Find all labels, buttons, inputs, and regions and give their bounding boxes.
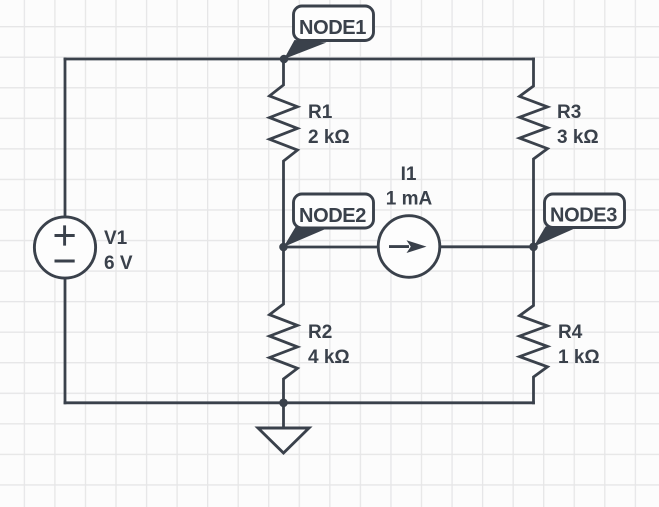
svg-text:2 kΩ: 2 kΩ <box>308 127 350 148</box>
junction at NODE1 <box>280 55 289 64</box>
current source I1 <box>378 216 440 278</box>
resistor R4 <box>520 247 548 403</box>
node NODE1 label <box>284 6 374 59</box>
svg-text:R4: R4 <box>558 322 583 343</box>
svg-text:6 V: 6 V <box>104 253 133 274</box>
svg-text:1 kΩ: 1 kΩ <box>558 347 600 368</box>
svg-text:4 kΩ: 4 kΩ <box>308 347 350 368</box>
svg-text:R3: R3 <box>557 102 581 123</box>
svg-text:NODE1: NODE1 <box>299 17 366 39</box>
wire NODE2 to I1 <box>284 246 379 249</box>
wire left upper: V1 top lead <box>64 59 67 217</box>
wire bottom: ground rail <box>65 401 534 404</box>
resistor R3 <box>520 59 548 247</box>
junction at ground rail <box>279 399 288 408</box>
value label R3 / 3 kΩ <box>557 102 599 148</box>
svg-text:R1: R1 <box>308 102 333 123</box>
svg-text:R2: R2 <box>308 322 332 343</box>
value label R2 / 4 kΩ <box>308 322 350 368</box>
svg-text:V1: V1 <box>104 228 128 249</box>
svg-text:3 kΩ: 3 kΩ <box>557 127 599 148</box>
value label V1 / 6 V <box>104 228 133 274</box>
ground <box>258 403 309 453</box>
wire top: NODE1 rail <box>65 58 534 61</box>
svg-text:NODE3: NODE3 <box>550 205 617 227</box>
value label R1 / 2 kΩ <box>308 102 350 148</box>
resistor R1 <box>270 59 298 247</box>
resistor R2 <box>270 247 298 403</box>
value label R4 / 1 kΩ <box>558 322 600 368</box>
value label I1 / 1 mA <box>386 164 433 210</box>
node NODE3 label <box>534 194 625 247</box>
svg-text:NODE2: NODE2 <box>299 205 366 227</box>
svg-text:I1: I1 <box>401 164 417 185</box>
wire left lower: V1 bottom lead <box>64 279 67 403</box>
svg-text:1 mA: 1 mA <box>386 189 433 210</box>
node NODE2 label <box>284 194 374 247</box>
junction at NODE2 <box>279 243 288 252</box>
junction at NODE3 <box>529 243 538 252</box>
voltage source V1 <box>34 217 95 278</box>
wire I1 to NODE3 <box>440 245 534 248</box>
